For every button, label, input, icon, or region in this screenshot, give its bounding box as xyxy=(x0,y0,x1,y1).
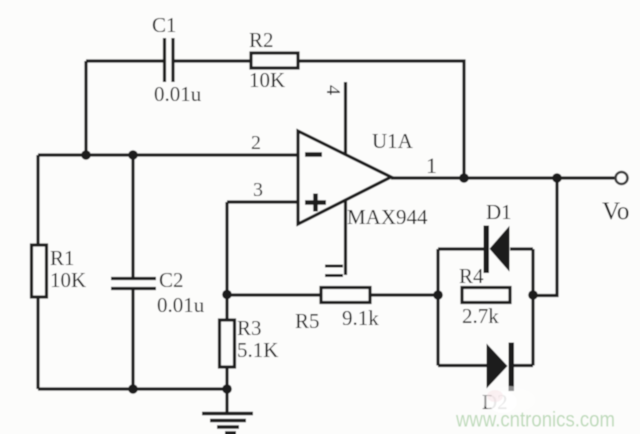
svg-text:0.01u: 0.01u xyxy=(154,82,202,106)
svg-text:3: 3 xyxy=(253,179,263,201)
junction node output-right xyxy=(552,173,562,183)
svg-text:R3: R3 xyxy=(237,316,262,340)
svg-text:D1: D1 xyxy=(486,200,512,224)
wire pin-3 vertical down to feedback node xyxy=(225,202,228,320)
wire left drop from top wire to inverting line xyxy=(84,61,87,155)
svg-text:2.7k: 2.7k xyxy=(462,304,499,328)
wire right vertical from output to R4 network xyxy=(533,178,557,296)
svg-text:9.1k: 9.1k xyxy=(342,306,379,330)
svg-text:10K: 10K xyxy=(50,268,86,292)
wire pin-2 horizontal xyxy=(38,153,298,156)
junction node diode network left xyxy=(433,290,443,300)
svg-text:C2: C2 xyxy=(159,268,184,292)
svg-text:MAX944: MAX944 xyxy=(347,205,428,229)
junction node noninverting-feedback xyxy=(222,290,232,300)
svg-text:C1: C1 xyxy=(152,13,177,37)
resistor R5 xyxy=(321,288,370,303)
wire bottom branch to D2 xyxy=(438,364,487,367)
svg-text:4: 4 xyxy=(322,85,344,95)
wire R3 to ground xyxy=(225,367,228,414)
svg-text:2: 2 xyxy=(251,132,261,154)
junction node output-feedback xyxy=(459,173,469,183)
junction node diode network right xyxy=(528,290,538,300)
pin 4 supply line xyxy=(344,82,347,155)
wire top-left horizontal to C1 xyxy=(86,59,163,62)
negative supply double-bar symbol xyxy=(325,266,343,276)
op-amp plus input mark xyxy=(305,194,326,212)
wire R2 right to feedback corner and down to output node xyxy=(298,61,464,178)
svg-text:R5: R5 xyxy=(295,309,320,333)
svg-text:R1: R1 xyxy=(50,246,75,270)
junction node bottom C2 xyxy=(128,384,138,394)
output terminal circle xyxy=(616,172,628,184)
op-amp minus input mark xyxy=(305,152,322,157)
resistor R3 xyxy=(220,320,235,367)
junction node on inverting line at x=133 xyxy=(128,150,138,160)
resistor R4 xyxy=(462,288,510,303)
junction node bottom R3 xyxy=(222,384,232,394)
wire pin-3 horizontal xyxy=(227,200,298,203)
diode D1 xyxy=(484,226,510,274)
wire R5 to diode network xyxy=(370,293,438,296)
wire D2 to right rail xyxy=(513,364,533,367)
negative supply pin line xyxy=(344,200,347,275)
wire C1 to R2 xyxy=(174,59,251,62)
svg-text:1: 1 xyxy=(426,153,437,178)
wire D1 to right rail xyxy=(510,247,533,250)
ground xyxy=(202,414,253,434)
resistor R1 xyxy=(32,245,47,297)
capacitor C2 xyxy=(111,279,156,289)
wire C2 top lead xyxy=(131,155,134,278)
diode D2 xyxy=(487,343,515,392)
wire left vertical lower segment xyxy=(36,297,39,389)
svg-text:U1A: U1A xyxy=(372,129,414,153)
wire diode network right rail xyxy=(531,249,534,366)
wire left vertical upper segment xyxy=(36,155,39,245)
svg-text:R4: R4 xyxy=(459,264,484,288)
wire top branch to D1 xyxy=(438,247,485,250)
capacitor C1 xyxy=(165,38,174,82)
op-amp U1A xyxy=(298,131,391,224)
wire feedback node to R5 xyxy=(227,293,321,296)
junction node on inverting line at x=86 xyxy=(81,150,91,160)
svg-text:Vo: Vo xyxy=(602,198,629,225)
wire output horizontal xyxy=(391,176,615,179)
resistor R2 xyxy=(251,53,298,68)
svg-text:www.cntronics.com: www.cntronics.com xyxy=(455,409,615,432)
white smudge over D2 area xyxy=(482,386,536,414)
svg-text:R2: R2 xyxy=(249,28,274,52)
wire diode network left rail xyxy=(436,249,439,366)
wire bottom horizontal xyxy=(38,387,227,390)
svg-text:5.1K: 5.1K xyxy=(237,338,278,362)
svg-text:10K: 10K xyxy=(249,68,285,92)
svg-text:0.01u: 0.01u xyxy=(157,293,205,317)
wire C2 bottom lead xyxy=(131,290,134,389)
